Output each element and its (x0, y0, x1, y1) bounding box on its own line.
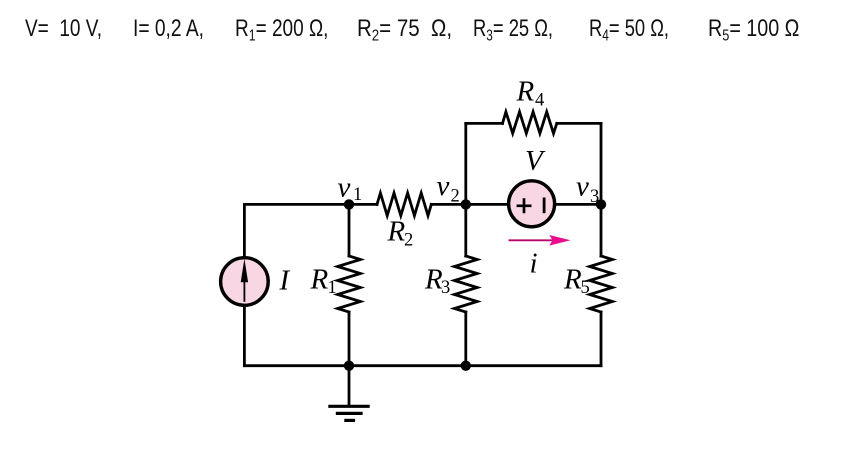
svg-text:v: v (576, 171, 589, 203)
label R2 (387, 216, 414, 251)
voltage source plus sign (517, 198, 532, 213)
svg-text:R: R (387, 216, 406, 248)
label R3 (424, 264, 450, 299)
svg-text:3: 3 (590, 187, 599, 207)
wire: node v1 to R2 (349, 203, 377, 206)
svg-text:2: 2 (404, 231, 413, 251)
wire: R2 to node v2 (431, 203, 466, 206)
value label: R3= 25 Ohm (473, 17, 553, 49)
svg-text:I: I (279, 265, 291, 297)
resistor R4 zigzag (503, 112, 557, 134)
wire: main horizontal left column to node v1 (244, 203, 349, 206)
wire: R5 down to bottom wire (600, 312, 603, 366)
wire: bottom horizontal (244, 364, 601, 367)
label v3 (576, 171, 599, 208)
bottom junction dot below R3 (461, 361, 471, 371)
node v3 junction dot (596, 199, 606, 209)
wire: voltage source V to node v3 (555, 203, 601, 206)
svg-text:v: v (338, 172, 351, 204)
wire: ground stem (348, 366, 351, 406)
svg-text:5: 5 (581, 278, 590, 298)
wire: R1 down to bottom wire (348, 312, 351, 366)
wire: left column top (current source upper lead) (243, 204, 246, 258)
wire: v2 down to R3 (464, 204, 467, 256)
svg-text:3: 3 (441, 278, 450, 298)
svg-text:2: 2 (451, 187, 460, 207)
svg-text:1: 1 (328, 278, 337, 298)
value label: R1= 200 Ohm (235, 17, 328, 49)
svg-text:R: R (310, 264, 329, 296)
voltage source V circle (509, 181, 555, 227)
wire: R3 down to bottom wire (464, 312, 467, 366)
svg-text:i: i (530, 248, 538, 280)
wire: R4 to top right corner (557, 122, 601, 125)
voltage source minus bar (543, 198, 546, 214)
resistor R2 zigzag (377, 193, 431, 216)
current source arrow (241, 259, 248, 302)
node v2 junction dot (461, 199, 471, 209)
value label: I= 0,2 A (133, 17, 204, 41)
current arrow i (magenta) (509, 235, 571, 246)
resistor R5 zigzag (590, 256, 613, 312)
current source I circle (221, 258, 269, 306)
resistor R1 zigzag (338, 256, 361, 312)
svg-text:R: R (563, 264, 582, 296)
label R4 (516, 76, 545, 111)
svg-text:R: R (516, 76, 535, 108)
wire: node v2 to voltage source V (466, 203, 509, 206)
svg-text:V: V (525, 145, 546, 177)
wire: v1 down to R1 (348, 204, 351, 256)
svg-text:1: 1 (353, 185, 362, 205)
wire: v3 down to R5 (600, 204, 603, 256)
value label: R2= 75 Ohm (357, 17, 452, 49)
value label: V= 10 V (25, 17, 102, 41)
resistor R3 zigzag (454, 256, 477, 312)
wire: top left horizontal to R4 (466, 122, 503, 125)
node v1 junction dot (344, 199, 354, 209)
wire: v2 branch up to top wire (464, 123, 467, 204)
bottom junction dot below R1 (344, 361, 354, 371)
value label: R4= 50 Ohm (589, 17, 669, 49)
value label: R5= 100 Ohm (708, 17, 799, 49)
label v1 (338, 172, 363, 206)
svg-text:v: v (437, 170, 450, 202)
label v2 (437, 170, 460, 207)
label R1 (310, 264, 337, 299)
wire: current source lower lead (243, 305, 246, 366)
label R5 (563, 264, 590, 299)
ground (328, 406, 369, 420)
svg-text:4: 4 (535, 91, 544, 111)
wire: top right corner down to node v3 (600, 123, 603, 204)
